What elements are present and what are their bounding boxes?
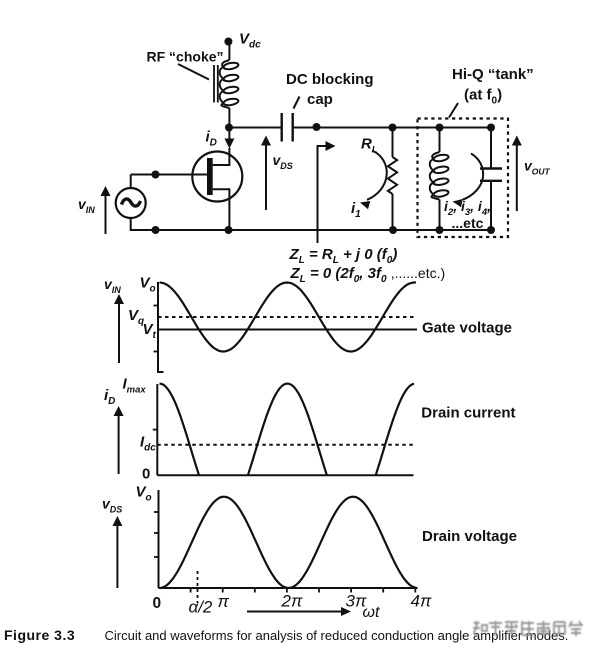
curve gate voltage sine — [160, 283, 417, 352]
waveform2 x axis — [157, 474, 413, 476]
voltage arrow vOUT — [512, 136, 522, 212]
dashed line Idc level — [157, 444, 413, 446]
leader line choke — [178, 64, 209, 80]
Hi-Q tank dashed box — [418, 119, 509, 238]
solid line Vt level — [158, 329, 417, 331]
waveform2 y axis — [156, 384, 158, 475]
waveform1 axis arrow — [114, 294, 124, 363]
waveform2 axis tick — [153, 429, 158, 431]
svg-text:Drain current: Drain current — [421, 405, 515, 422]
svg-text:Figure 3.3: Figure 3.3 — [4, 627, 75, 643]
capacitor tank — [480, 128, 502, 231]
junction bottom source — [225, 226, 233, 234]
wire choke bottom to drain node — [228, 108, 230, 128]
leader line cap — [294, 97, 300, 109]
current arrow iD — [224, 128, 234, 149]
curve drain current pulses — [160, 384, 415, 476]
junction bottom input — [152, 226, 160, 234]
current arrow i1 (arc) — [360, 151, 387, 210]
svg-text:α/2: α/2 — [189, 598, 213, 617]
junction drain node — [225, 124, 233, 132]
junction bottom tank L — [436, 226, 444, 234]
source vIN AC generator — [116, 188, 146, 218]
label DC blocking cap — [286, 71, 374, 108]
waveform3 x ticks — [191, 588, 416, 593]
junction bottom RL — [389, 226, 397, 234]
dashed line Vq level — [158, 316, 414, 318]
wire source bottom — [131, 218, 156, 230]
current arrow i2 i3 i4 (arc) — [453, 154, 484, 208]
svg-text:Circuit and waveforms for anal: Circuit and waveforms for analysis of re… — [105, 628, 569, 643]
svg-text:Hi-Q “tank”: Hi-Q “tank” — [452, 66, 534, 83]
transistor MOSFET body circle — [192, 152, 242, 202]
dashed line alpha/2 — [197, 571, 199, 603]
choke core bars — [214, 65, 218, 103]
junction tank L top — [436, 124, 444, 132]
svg-text:cap: cap — [307, 91, 333, 108]
svg-text:4π: 4π — [411, 592, 432, 611]
waveform1 axis ticks — [154, 306, 159, 352]
waveform2 axis arrow — [114, 406, 124, 474]
curve drain voltage humps — [160, 497, 418, 588]
junction gate input — [152, 171, 160, 179]
wire gate — [131, 174, 207, 176]
impedance arrow ZL looking into load — [318, 141, 336, 243]
watermark zhihu grey — [473, 621, 583, 636]
svg-text:ωt: ωt — [363, 604, 380, 621]
svg-text:0: 0 — [153, 595, 162, 612]
transistor gate bar — [207, 158, 213, 195]
waveform3 x axis — [159, 587, 418, 589]
inductor RF choke — [220, 60, 239, 108]
node Vdc terminal dot — [224, 38, 232, 46]
axis arrow omega t — [247, 607, 351, 616]
waveform1 y axis — [158, 282, 164, 372]
resistor RL — [388, 128, 397, 231]
wire top rail right of cap — [293, 127, 491, 129]
junction tank C top — [487, 124, 495, 132]
waveform3 y axis — [158, 490, 160, 588]
svg-text:RF “choke”: RF “choke” — [147, 49, 224, 65]
voltage arrow vIN — [101, 186, 111, 234]
svg-text:π: π — [218, 592, 230, 611]
waveform3 axis arrow — [112, 516, 122, 588]
inductor tank — [430, 128, 449, 231]
wire Vdc to choke top — [228, 42, 230, 61]
wire source top — [130, 175, 132, 189]
svg-text:DC blocking: DC blocking — [286, 71, 374, 88]
svg-text:2π: 2π — [281, 592, 303, 611]
junction RL top — [389, 124, 397, 132]
junction after blocking cap — [313, 123, 321, 131]
wire bottom rail — [156, 229, 492, 231]
svg-text:0: 0 — [142, 466, 150, 483]
waveform3 y ticks — [154, 512, 159, 557]
svg-text:...etc: ...etc — [452, 215, 484, 231]
junction bottom tank C — [487, 226, 495, 234]
wire top rail left (node to cap) — [229, 127, 282, 129]
svg-text:Drain voltage: Drain voltage — [422, 528, 517, 545]
transistor drain lead — [213, 148, 230, 165]
voltage arrow vDS — [261, 136, 271, 211]
capacitor DC blocking — [282, 113, 293, 142]
leader line tank — [449, 103, 458, 118]
svg-text:Gate voltage: Gate voltage — [422, 320, 512, 337]
transistor source lead — [213, 189, 230, 230]
